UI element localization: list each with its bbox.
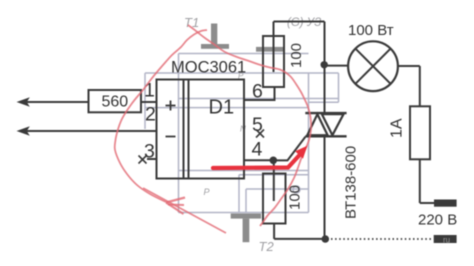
svg-text:(G) УЗ: (G) УЗ: [287, 17, 321, 29]
svg-text:2: 2: [145, 104, 156, 126]
svg-text:P: P: [204, 187, 210, 197]
svg-text:ru: ru: [443, 236, 450, 245]
svg-text:5: 5: [252, 114, 263, 136]
svg-text:3: 3: [144, 141, 155, 163]
svg-text:D1: D1: [209, 97, 235, 119]
svg-text:100 Вт: 100 Вт: [348, 22, 394, 39]
svg-text:1А: 1А: [389, 118, 406, 138]
svg-text:4: 4: [252, 139, 263, 161]
svg-text:MOC3061: MOC3061: [171, 59, 246, 77]
svg-text:220 В: 220 В: [418, 212, 457, 229]
svg-text:100: 100: [288, 43, 305, 68]
svg-text:6: 6: [252, 81, 263, 103]
svg-text:T2: T2: [259, 239, 275, 254]
svg-text:560: 560: [102, 94, 129, 111]
svg-text:ВТ138-600: ВТ138-600: [343, 146, 360, 219]
